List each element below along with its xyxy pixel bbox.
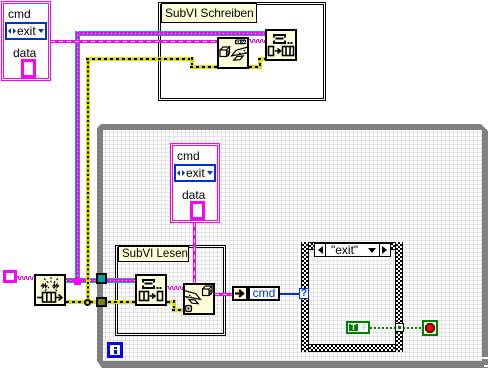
while loop border: [97, 124, 488, 368]
wire: boolean (green dotted) tunnel to stop terminal: [403, 327, 422, 329]
loop tunnel: error (olive): [96, 297, 107, 307]
case structure border bands (checkered): [301, 242, 403, 250]
wire: error between Flatten and Enqueue: [249, 65, 262, 69]
Dequeue Element icon: [135, 274, 167, 306]
iteration terminal i: [107, 342, 123, 358]
SubVI Schreiben frame: [158, 2, 326, 101]
wire: boolean (green dotted) T constant to tunnel: [370, 327, 395, 329]
wire: error horizontal from Obtain Queue into loop to Dequeue: [66, 300, 135, 304]
loop tunnel: queue refnum (teal): [96, 273, 107, 284]
junction: queue wire: [74, 278, 81, 285]
wire: string (wavy) Flatten to Enqueue: [249, 39, 265, 43]
case selector terminal ?: [299, 288, 309, 299]
SubVI Lesen frame: [115, 245, 226, 336]
wire: cluster (pink dashed) vertical from inner cmd cluster to Unflatten: [193, 223, 196, 283]
wire: cluster (pink dashed) from outer cmd cluster to Flatten icon: [51, 40, 217, 43]
inner cmd/data cluster control: [170, 143, 220, 223]
Flatten To String icon: [217, 37, 249, 69]
boolean True constant: [346, 321, 370, 334]
wire: queue refnum vertical: [75, 31, 80, 283]
loop corner bevels: [97, 124, 101, 128]
string constant (left): [3, 270, 17, 283]
Enqueue Element icon: [265, 29, 297, 61]
Obtain Queue icon: [34, 274, 66, 306]
wire: error step down before Flatten: [190, 57, 194, 69]
wire: queue refnum horizontal from Obtain Queue into loop to Dequeue: [66, 278, 135, 283]
outer cmd/data cluster control: [1, 1, 51, 81]
case selector label: [314, 243, 391, 257]
Unflatten From String icon: [183, 283, 215, 315]
wire: error horizontal top (to SubVI Schreiben): [86, 57, 194, 61]
while loop grid background: [103, 130, 482, 361]
wire: cluster (pink dashed) Unflatten to cmd terminal: [215, 293, 232, 296]
wire: queue refnum horizontal top (to Enqueue): [75, 31, 265, 36]
wire: enum (blue) cmd terminal to case selector: [280, 293, 299, 295]
wire: error from Dequeue to Unflatten: [167, 300, 176, 304]
wire: string (wavy) Dequeue to Unflatten: [167, 286, 183, 290]
junction: error wire: [84, 299, 91, 306]
wire: error cluster vertical: [86, 57, 90, 304]
wire: string (wavy) constant to Obtain Queue: [17, 276, 34, 280]
case tunnel (boolean): [395, 323, 404, 332]
SubVI Schreiben label: [161, 3, 257, 23]
stop button terminal: [422, 320, 438, 336]
SubVI Lesen label: [118, 246, 189, 262]
loop resize notch: [482, 357, 488, 359]
cmd indicator terminal: [232, 286, 248, 301]
